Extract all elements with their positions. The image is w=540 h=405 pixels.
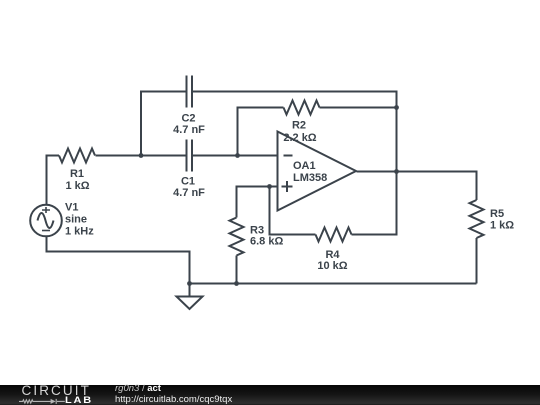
wire C2 right to node C xyxy=(192,92,397,108)
wire node B up to R2 xyxy=(238,108,284,156)
wire C1 right to node B xyxy=(192,155,238,157)
svg-text:1 kΩ: 1 kΩ xyxy=(490,220,514,232)
CircuitLab logo CIRCUIT xyxy=(22,385,91,396)
svg-text:R5: R5 xyxy=(490,208,504,220)
plot title xyxy=(115,384,161,393)
svg-text:R1: R1 xyxy=(70,168,84,180)
output node junction xyxy=(394,169,399,174)
svg-text:6.8 kΩ: 6.8 kΩ xyxy=(250,236,283,248)
svg-text:sine: sine xyxy=(65,214,87,226)
capacitor C1 xyxy=(187,140,193,172)
node A junction xyxy=(139,153,144,158)
svg-text:OA1: OA1 xyxy=(293,160,316,172)
CircuitLab logo LAB xyxy=(65,397,93,404)
svg-text:2.2 kΩ: 2.2 kΩ xyxy=(283,132,316,144)
wire R5 bottom to ground rail xyxy=(476,238,478,284)
wire output to R5 top xyxy=(357,172,477,201)
ground xyxy=(177,284,203,310)
wire R2 right to node C xyxy=(320,107,397,109)
footer bar xyxy=(0,385,540,405)
V1 sine wave xyxy=(38,213,54,228)
resistor R1 xyxy=(59,149,95,163)
R3 bottom junction xyxy=(234,281,239,286)
node B junction xyxy=(235,153,240,158)
wire node A to C1 xyxy=(141,155,187,157)
resistor R2 xyxy=(284,101,320,115)
wire node B to op-amp inverting input xyxy=(238,155,278,157)
svg-text:R2: R2 xyxy=(292,120,306,132)
wire plus node to op-amp noninverting input xyxy=(270,186,278,188)
wire ground rail xyxy=(190,283,477,285)
plot url xyxy=(115,395,232,404)
wire R4 right up to output node xyxy=(352,172,397,235)
node C junction xyxy=(394,105,399,110)
resistor R5 xyxy=(470,200,484,238)
wire R3 top to plus node xyxy=(237,187,270,218)
svg-text:1 kHz: 1 kHz xyxy=(65,226,94,238)
svg-text:10 kΩ: 10 kΩ xyxy=(317,260,347,272)
svg-text:LM358: LM358 xyxy=(293,172,327,184)
resistor R3 xyxy=(230,218,244,256)
svg-text:1 kΩ: 1 kΩ xyxy=(65,180,89,192)
wire node C down to output node xyxy=(396,108,398,172)
svg-text:4.7 nF: 4.7 nF xyxy=(173,124,205,136)
svg-text:C2: C2 xyxy=(181,113,195,125)
svg-text:V1: V1 xyxy=(65,202,78,214)
resistor R4 xyxy=(316,228,352,242)
CircuitLab logo resistor-diode decoration xyxy=(18,397,66,405)
svg-text:4.7 nF: 4.7 nF xyxy=(173,187,205,199)
wire node A up to C2 xyxy=(141,92,187,156)
op-amp OA1 xyxy=(278,132,357,211)
wire R1 to node A xyxy=(96,155,142,157)
wire plus node down to R4 left xyxy=(270,187,316,235)
V1 minus marker xyxy=(42,230,50,232)
op-amp plus marker xyxy=(282,181,293,192)
wire V1 bottom to ground junction xyxy=(47,237,190,284)
wire V1 top to R1 left xyxy=(47,156,60,205)
wire R3 bottom to ground rail xyxy=(236,256,238,284)
op-amp minus marker xyxy=(284,155,293,157)
capacitor C2 xyxy=(187,76,193,108)
ground junction xyxy=(187,281,192,286)
V1 plus marker xyxy=(42,207,50,213)
svg-text:C1: C1 xyxy=(181,176,195,188)
plus node junction xyxy=(267,184,272,189)
voltage source V1 xyxy=(30,205,62,237)
